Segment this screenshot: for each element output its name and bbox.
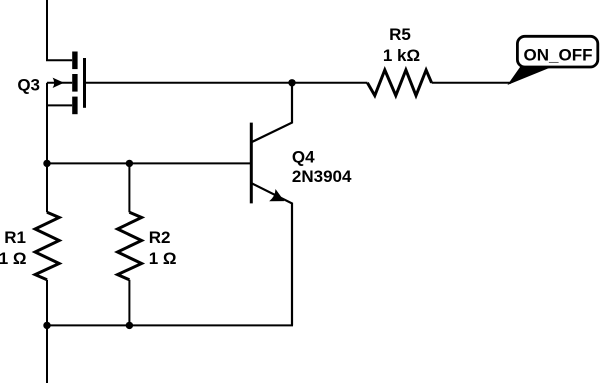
- junction: R1 top: [43, 160, 50, 167]
- resistor R2: [118, 163, 142, 325]
- wire: bottom rail: [47, 324, 293, 326]
- wire: R5 to ON_OFF flag: [432, 82, 511, 84]
- resistor R5: [367, 70, 431, 96]
- junction: R1 bottom: [43, 322, 50, 329]
- svg-text:Q4: Q4: [292, 148, 315, 167]
- wire: middle rail (R1/R2 tops to Q4 base): [47, 162, 251, 164]
- junction: R2 bottom: [126, 322, 133, 329]
- value 1 Ω (R2): [149, 249, 177, 268]
- svg-text:1 Ω: 1 Ω: [0, 249, 27, 268]
- resistor R1: [35, 163, 59, 325]
- svg-text:2N3904: 2N3904: [292, 167, 352, 186]
- junction: Q4 collector on gate rail: [288, 79, 295, 86]
- node ON_OFF (net name flag): [510, 36, 598, 83]
- svg-text:R2: R2: [149, 228, 171, 247]
- label R2: [149, 228, 171, 247]
- wire: gate rail from Q3 gate to R5: [85, 82, 368, 84]
- svg-text:Q3: Q3: [17, 75, 40, 94]
- svg-text:R1: R1: [4, 228, 26, 247]
- value 2N3904: [292, 167, 352, 186]
- wire: left vertical rail from Q3 bulk/drain down to R1 top junction: [46, 83, 48, 164]
- svg-text:ON_OFF: ON_OFF: [524, 45, 593, 64]
- transistor Q3 (MOSFET, gate on right): [47, 52, 85, 115]
- value 1 Ω (R1): [0, 249, 27, 268]
- svg-text:R5: R5: [389, 25, 411, 44]
- value 1 kΩ: [383, 46, 420, 65]
- svg-text:1 kΩ: 1 kΩ: [383, 46, 420, 65]
- junction: R2 top: [126, 160, 133, 167]
- label Q3: [17, 75, 40, 94]
- label Q4: [292, 148, 315, 167]
- transistor Q4 (NPN): [251, 83, 292, 326]
- wire: left vertical rail from bottom junction to bottom edge: [46, 325, 48, 383]
- svg-text:1 Ω: 1 Ω: [149, 249, 177, 268]
- wire: top supply vertical into Q3 source: [47, 0, 72, 60]
- label R5: [389, 25, 411, 44]
- label R1: [4, 228, 26, 247]
